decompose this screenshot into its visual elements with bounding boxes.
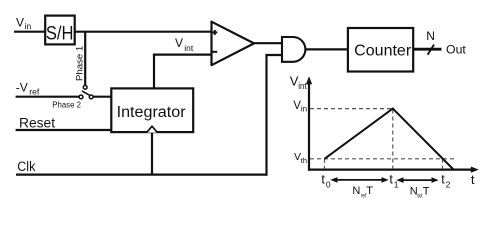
svg-text:2: 2 (446, 180, 451, 190)
svg-text:Counter: Counter (354, 43, 411, 60)
svg-text:-V: -V (16, 81, 28, 95)
svg-text:V: V (175, 36, 183, 50)
svg-text:Phase 2: Phase 2 (52, 100, 81, 109)
svg-text:Reset: Reset (19, 116, 55, 131)
svg-text:ref: ref (361, 192, 366, 199)
svg-text:ref: ref (29, 87, 40, 97)
svg-text:t: t (389, 172, 393, 186)
svg-text:T: T (366, 185, 373, 197)
svg-text:V: V (16, 15, 24, 29)
svg-text:in: in (301, 105, 307, 114)
svg-text:int: int (184, 43, 194, 53)
svg-text:Clk: Clk (17, 159, 35, 174)
svg-text:int: int (298, 81, 307, 91)
svg-text:th: th (301, 156, 307, 165)
svg-text:S/H: S/H (46, 23, 74, 44)
svg-text:in: in (25, 21, 32, 31)
svg-text:t: t (471, 172, 475, 187)
svg-text:N: N (426, 29, 435, 43)
svg-text:Integrator: Integrator (117, 104, 186, 121)
svg-text:Phase 1: Phase 1 (75, 46, 86, 81)
svg-text:t: t (321, 172, 325, 186)
svg-text:1: 1 (394, 180, 399, 190)
svg-text:T: T (423, 185, 430, 197)
svg-text:0: 0 (326, 180, 331, 190)
svg-text:N: N (352, 185, 360, 197)
svg-text:Out: Out (446, 42, 466, 56)
